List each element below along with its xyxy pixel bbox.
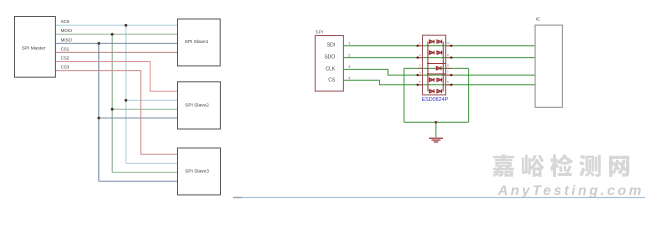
svg-text:1: 1	[419, 41, 421, 45]
diode-array U2 ESD0824P box	[423, 35, 446, 95]
svg-text:MOSI: MOSI	[61, 28, 72, 33]
svg-text:10: 10	[446, 41, 450, 45]
node pin junction left r2	[417, 56, 419, 58]
diode pair D5	[429, 89, 441, 93]
ESD pin numbers	[419, 41, 450, 84]
svg-text:7: 7	[447, 70, 449, 74]
ground	[429, 138, 443, 142]
node pin junction right r4	[450, 74, 452, 76]
wire MOSI bus	[55, 33, 177, 35]
svg-text:SPI Master: SPI Master	[22, 46, 46, 52]
bottom rule line	[233, 197, 645, 199]
svg-text:3: 3	[419, 64, 421, 68]
svg-text:CS1: CS1	[61, 46, 70, 51]
svg-text:CS3: CS3	[61, 65, 70, 70]
node junction SCK tap	[125, 24, 128, 27]
svg-text:ESD0824P: ESD0824P	[422, 97, 449, 103]
diode clamp D3	[436, 66, 441, 70]
node ground junction	[435, 121, 438, 124]
node junction SCK slave2 tap	[125, 99, 128, 102]
op-amp SPI Slave3 block	[178, 148, 221, 195]
svg-text:SPI Slave3: SPI Slave3	[185, 169, 209, 175]
svg-text:CS: CS	[328, 77, 336, 83]
node junction MOSI tap	[111, 33, 114, 36]
diode pair D2	[429, 51, 441, 55]
wire CLK net	[343, 69, 535, 75]
svg-text:SDI: SDI	[327, 43, 335, 49]
wire MISO bus	[55, 42, 177, 44]
op-amp SPI Master block	[15, 17, 56, 78]
wire SCK to slave2	[126, 99, 178, 101]
diode pair D4	[429, 78, 441, 82]
op-amp SPI Slave1 block	[178, 19, 221, 66]
svg-text:MISO: MISO	[61, 37, 73, 42]
node junction MISO tap	[97, 42, 100, 45]
svg-text:9: 9	[447, 53, 449, 57]
wire ground loop left	[403, 68, 405, 122]
svg-text:SPI Slave2: SPI Slave2	[185, 103, 209, 109]
ESD internal rail verticals	[428, 42, 443, 92]
node pin junction left r1	[417, 45, 419, 47]
node pin junction left r4	[417, 74, 419, 76]
op-amp SPI Slave2 block	[178, 82, 221, 129]
node pin junction left r5	[417, 84, 419, 86]
svg-text:6: 6	[447, 80, 449, 84]
connector J1 SPI header	[315, 36, 343, 92]
wire MOSI branch vertical	[111, 34, 113, 172]
ESD internal rail horizontals	[427, 64, 446, 74]
node junction MISO slave2 tap	[97, 117, 100, 120]
wire ground loop right	[468, 68, 470, 122]
node pin junction right r2	[450, 56, 452, 58]
svg-text:2: 2	[419, 53, 421, 57]
svg-text:4: 4	[348, 76, 350, 80]
wire SCK to slave3	[126, 162, 178, 164]
wire MISO branch vertical	[98, 43, 100, 181]
wire ground stem	[435, 122, 437, 137]
svg-text:CS2: CS2	[61, 55, 70, 60]
svg-text:4: 4	[419, 70, 421, 74]
svg-text:AnyTesting.com: AnyTesting.com	[497, 182, 644, 198]
wire CS1	[55, 51, 177, 53]
svg-text:3: 3	[348, 65, 350, 69]
svg-text:CLK: CLK	[325, 66, 335, 72]
wire MOSI to slave3	[112, 171, 177, 173]
svg-text:SDO: SDO	[324, 55, 335, 61]
wire ground loop bottom	[404, 121, 469, 123]
svg-text:2: 2	[348, 53, 350, 57]
wire SDI net	[343, 45, 535, 47]
svg-text:5: 5	[419, 80, 421, 84]
node pin junction right r1	[450, 45, 452, 47]
svg-text:8: 8	[447, 64, 449, 68]
wire SDO net	[343, 57, 535, 59]
node junction MOSI slave2 tap	[111, 108, 114, 111]
svg-text:IC: IC	[536, 17, 541, 23]
watermark chinese text	[492, 154, 629, 177]
wire MISO to slave3	[99, 180, 178, 182]
wire SCK branch vertical	[125, 25, 127, 163]
wire SCK bus	[55, 24, 177, 26]
wire CS net	[343, 80, 535, 85]
wire GND mid row	[404, 67, 469, 69]
wire MISO to slave2	[99, 117, 178, 119]
wire CS3	[55, 71, 177, 155]
ESD pin stubs	[418, 46, 452, 85]
diode pair D1	[429, 40, 441, 44]
svg-text:SPI Slave1: SPI Slave1	[185, 39, 209, 45]
svg-text:SCK: SCK	[61, 19, 70, 24]
svg-text:1: 1	[348, 41, 350, 45]
wire MOSI to slave2	[112, 108, 177, 110]
op-amp IC block	[535, 25, 562, 107]
node pin junction right r5	[450, 84, 452, 86]
wire CS2	[55, 62, 177, 92]
svg-text:SPI: SPI	[315, 30, 323, 36]
